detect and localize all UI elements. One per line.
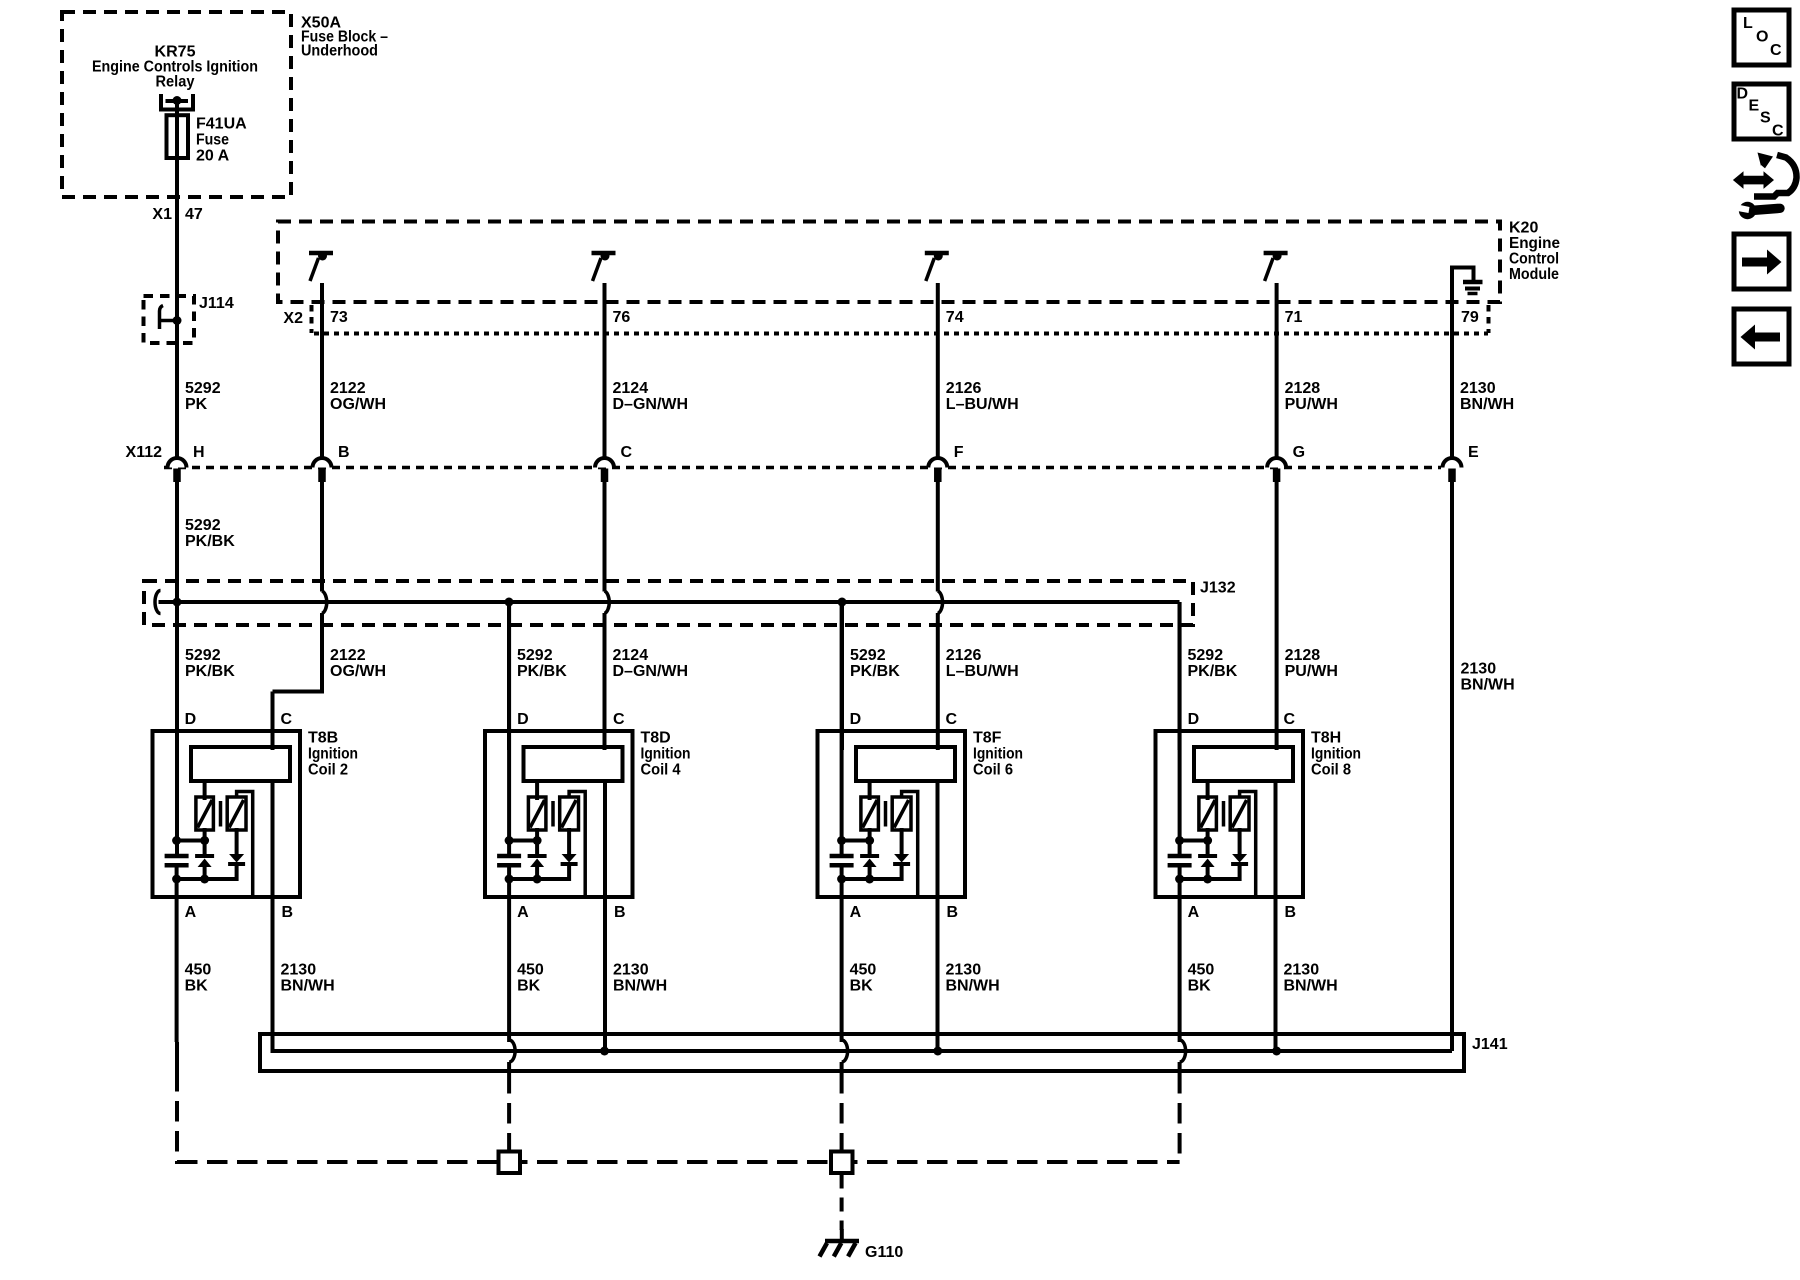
- svg-text:A: A: [1188, 904, 1200, 921]
- svg-text:2122: 2122: [330, 380, 366, 397]
- svg-text:E: E: [1468, 444, 1479, 461]
- svg-text:C: C: [1284, 711, 1296, 728]
- svg-text:D–GN/WH: D–GN/WH: [613, 663, 689, 680]
- svg-text:K20: K20: [1509, 220, 1538, 237]
- svg-text:76: 76: [613, 309, 631, 326]
- svg-text:B: B: [1285, 904, 1297, 921]
- svg-text:2126: 2126: [946, 380, 982, 397]
- svg-text:B: B: [282, 904, 294, 921]
- svg-text:J132: J132: [1200, 580, 1236, 597]
- svg-text:C: C: [1770, 42, 1782, 59]
- svg-text:D–GN/WH: D–GN/WH: [613, 396, 689, 413]
- svg-text:T8F: T8F: [973, 730, 1002, 747]
- svg-text:2128: 2128: [1285, 647, 1321, 664]
- svg-text:C: C: [613, 711, 625, 728]
- svg-text:73: 73: [330, 309, 348, 326]
- svg-text:Module: Module: [1509, 266, 1559, 283]
- svg-text:B: B: [947, 904, 959, 921]
- svg-text:L–BU/WH: L–BU/WH: [946, 396, 1019, 413]
- svg-text:Underhood: Underhood: [301, 43, 378, 60]
- svg-text:Ignition: Ignition: [308, 746, 358, 763]
- svg-text:BK: BK: [850, 978, 874, 995]
- svg-text:Engine: Engine: [1509, 235, 1560, 252]
- svg-text:PK/BK: PK/BK: [850, 663, 900, 680]
- svg-text:F41UA: F41UA: [196, 116, 247, 133]
- svg-text:PK: PK: [185, 396, 208, 413]
- svg-text:450: 450: [850, 962, 877, 979]
- svg-text:BK: BK: [517, 978, 541, 995]
- svg-text:L: L: [1743, 15, 1753, 32]
- svg-text:74: 74: [946, 309, 964, 326]
- svg-text:L–BU/WH: L–BU/WH: [946, 663, 1019, 680]
- svg-text:D: D: [517, 711, 529, 728]
- svg-text:Coil 4: Coil 4: [641, 762, 681, 779]
- svg-text:OG/WH: OG/WH: [330, 663, 386, 680]
- svg-text:X2: X2: [283, 310, 303, 327]
- svg-text:D: D: [1188, 711, 1200, 728]
- svg-text:2130: 2130: [1284, 962, 1320, 979]
- svg-text:5292: 5292: [1188, 647, 1224, 664]
- svg-text:2130: 2130: [946, 962, 982, 979]
- svg-text:450: 450: [517, 962, 544, 979]
- svg-text:OG/WH: OG/WH: [330, 396, 386, 413]
- svg-text:BN/WH: BN/WH: [946, 978, 1000, 995]
- svg-text:PK/BK: PK/BK: [185, 533, 235, 550]
- svg-text:BN/WH: BN/WH: [281, 978, 335, 995]
- svg-text:2130: 2130: [281, 962, 317, 979]
- svg-text:5292: 5292: [185, 380, 221, 397]
- svg-text:BN/WH: BN/WH: [1284, 978, 1338, 995]
- svg-text:BN/WH: BN/WH: [1461, 677, 1515, 694]
- svg-text:F: F: [954, 444, 964, 461]
- svg-text:J114: J114: [199, 295, 234, 312]
- svg-text:2122: 2122: [330, 647, 366, 664]
- svg-text:2128: 2128: [1285, 380, 1321, 397]
- svg-text:B: B: [338, 444, 350, 461]
- svg-text:C: C: [946, 711, 958, 728]
- svg-text:Coil 8: Coil 8: [1311, 762, 1351, 779]
- svg-text:Coil 6: Coil 6: [973, 762, 1013, 779]
- svg-text:2124: 2124: [613, 380, 649, 397]
- svg-text:PK/BK: PK/BK: [517, 663, 567, 680]
- svg-text:5292: 5292: [185, 647, 221, 664]
- svg-text:X112: X112: [126, 444, 163, 461]
- svg-text:Ignition: Ignition: [641, 746, 691, 763]
- svg-text:Ignition: Ignition: [1311, 746, 1361, 763]
- svg-text:J141: J141: [1472, 1036, 1508, 1053]
- svg-text:G110: G110: [865, 1244, 903, 1261]
- svg-text:T8D: T8D: [641, 730, 671, 747]
- svg-text:H: H: [193, 444, 205, 461]
- svg-text:Control: Control: [1509, 251, 1559, 268]
- svg-text:O: O: [1756, 29, 1768, 46]
- svg-text:D: D: [185, 711, 197, 728]
- svg-text:2130: 2130: [1461, 661, 1497, 678]
- svg-text:47: 47: [185, 206, 203, 223]
- svg-text:A: A: [517, 904, 529, 921]
- svg-text:5292: 5292: [517, 647, 553, 664]
- svg-text:2124: 2124: [613, 647, 649, 664]
- svg-text:PU/WH: PU/WH: [1285, 396, 1338, 413]
- svg-text:D: D: [1737, 86, 1749, 103]
- svg-text:Ignition: Ignition: [973, 746, 1023, 763]
- svg-text:PK/BK: PK/BK: [1188, 663, 1238, 680]
- svg-text:A: A: [185, 904, 197, 921]
- svg-text:PK/BK: PK/BK: [185, 663, 235, 680]
- svg-text:450: 450: [1188, 962, 1215, 979]
- svg-text:PU/WH: PU/WH: [1285, 663, 1338, 680]
- svg-text:T8B: T8B: [308, 730, 338, 747]
- svg-text:5292: 5292: [185, 517, 221, 534]
- svg-text:E: E: [1749, 98, 1760, 115]
- svg-text:T8H: T8H: [1311, 730, 1341, 747]
- svg-text:Fuse: Fuse: [196, 132, 229, 149]
- svg-text:20 A: 20 A: [196, 148, 230, 165]
- svg-text:C: C: [621, 444, 633, 461]
- svg-text:2130: 2130: [1460, 380, 1496, 397]
- svg-text:BK: BK: [1188, 978, 1212, 995]
- svg-text:2126: 2126: [946, 647, 982, 664]
- svg-text:2130: 2130: [613, 962, 649, 979]
- svg-text:5292: 5292: [850, 647, 886, 664]
- svg-text:S: S: [1760, 110, 1771, 127]
- svg-text:BN/WH: BN/WH: [1460, 396, 1514, 413]
- svg-text:71: 71: [1285, 309, 1303, 326]
- svg-text:D: D: [850, 711, 862, 728]
- svg-text:79: 79: [1461, 309, 1479, 326]
- svg-text:BN/WH: BN/WH: [613, 978, 667, 995]
- svg-text:X1: X1: [152, 206, 172, 223]
- svg-text:Coil 2: Coil 2: [308, 762, 348, 779]
- svg-text:BK: BK: [185, 978, 209, 995]
- svg-text:A: A: [850, 904, 862, 921]
- svg-text:C: C: [281, 711, 293, 728]
- svg-text:Relay: Relay: [156, 74, 195, 91]
- svg-text:C: C: [1772, 123, 1784, 140]
- svg-text:G: G: [1293, 444, 1305, 461]
- svg-text:B: B: [614, 904, 626, 921]
- svg-text:450: 450: [185, 962, 212, 979]
